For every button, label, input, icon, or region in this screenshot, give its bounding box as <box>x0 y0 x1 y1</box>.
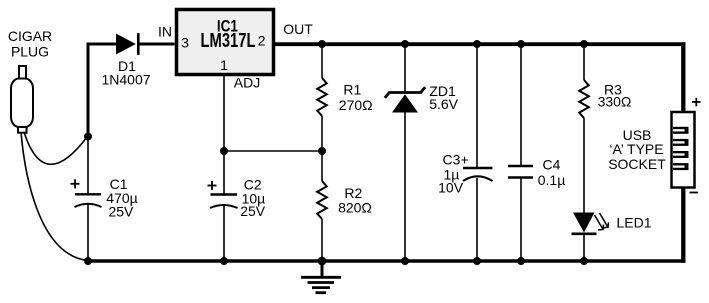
node bottom R2/ground <box>318 257 327 266</box>
svg-text:820Ω: 820Ω <box>338 200 372 216</box>
resistor R3 <box>579 80 589 118</box>
svg-text:270Ω: 270Ω <box>339 97 373 113</box>
wire R2 bottom stem <box>321 219 323 261</box>
wire plug to junction (curve A) <box>24 132 87 164</box>
wire C1 top stem <box>87 136 89 194</box>
wire C2 top stem <box>223 151 225 194</box>
C4 value label <box>538 157 566 188</box>
C1 polarity plus <box>71 179 80 188</box>
svg-text:ADJ: ADJ <box>234 75 260 91</box>
svg-text:330Ω: 330Ω <box>598 93 632 109</box>
LED1 light arrows <box>595 213 609 230</box>
svg-text:PLUG: PLUG <box>11 44 49 60</box>
svg-text:C4: C4 <box>543 157 561 173</box>
wire plug to ground bus (curve B) <box>21 132 88 261</box>
node ADJ/C2 <box>220 147 228 155</box>
node bottom C2 <box>220 257 228 265</box>
wire ZD1 bottom stem <box>404 113 406 262</box>
wire LED bottom stem <box>583 234 585 261</box>
wire diode to IC <box>138 43 174 46</box>
svg-text:SOCKET: SOCKET <box>608 156 666 172</box>
wire input corner: vertical + horizontal to diode <box>88 44 116 136</box>
zener diode ZD1 <box>385 87 425 112</box>
resistor R1 <box>317 78 327 116</box>
wire C3 top stem <box>476 44 478 168</box>
cigar plug symbol <box>11 66 33 133</box>
capacitor C3 <box>463 168 493 181</box>
R3 value label <box>598 81 632 109</box>
wire ZD1 top stem <box>404 44 406 92</box>
wire ADJ to R1/R2 junction <box>224 150 322 152</box>
svg-text:IN: IN <box>158 24 172 40</box>
ZD1 value label <box>429 83 458 112</box>
wire C4 bottom stem <box>520 178 522 262</box>
cigar plug label <box>8 28 52 60</box>
wire R3 top stem <box>583 44 585 80</box>
svg-text:C3+: C3+ <box>443 152 469 168</box>
wire C2 bottom stem <box>223 206 225 262</box>
node bottom C3 <box>473 257 481 265</box>
svg-text:R1: R1 <box>343 81 361 97</box>
wire top bus OUT <box>274 42 685 46</box>
node OUT at R3 <box>580 40 588 48</box>
svg-text:LM317L: LM317L <box>201 30 256 52</box>
wire bottom bus <box>86 259 685 263</box>
node OUT at ZD1 <box>401 40 409 48</box>
USB socket label <box>608 127 666 172</box>
node OUT at C4 <box>517 40 525 48</box>
R1 value label <box>339 81 373 113</box>
ground <box>301 261 341 293</box>
USB socket contacts <box>673 127 689 170</box>
node R1/R2 <box>318 147 326 155</box>
svg-text:10V: 10V <box>438 180 464 196</box>
node bottom C1 <box>84 257 92 265</box>
R2 value label <box>338 185 372 216</box>
resistor R2 <box>317 181 327 219</box>
USB socket minus terminal <box>690 192 699 194</box>
wire R1 top stem <box>321 44 323 78</box>
C2 value label <box>240 177 266 220</box>
wire R2 top stem <box>321 151 323 181</box>
svg-text:OUT: OUT <box>283 21 313 37</box>
capacitor C1 <box>75 194 102 207</box>
svg-text:1: 1 <box>220 57 228 73</box>
wire C1 bottom stem <box>87 205 89 262</box>
node input junction <box>84 133 92 141</box>
LED LED1 <box>572 213 597 234</box>
wire right vertical top <box>681 42 685 112</box>
diode D1 <box>116 33 138 55</box>
node OUT at R1 <box>318 40 326 48</box>
node bottom ZD1 <box>401 257 409 265</box>
C1 value label <box>106 176 137 220</box>
node bottom LED1 <box>580 257 588 265</box>
svg-text:CIGAR: CIGAR <box>8 28 52 44</box>
svg-text:3: 3 <box>181 35 189 51</box>
D1 value label <box>101 58 150 88</box>
capacitor C4 <box>508 166 533 178</box>
node bottom C4 <box>517 257 525 265</box>
svg-text:‘A’ TYPE: ‘A’ TYPE <box>609 141 663 157</box>
svg-text:25V: 25V <box>240 203 266 219</box>
wire R3 to LED <box>583 118 585 213</box>
svg-text:25V: 25V <box>108 204 134 220</box>
wire R1 bottom stem <box>321 116 323 151</box>
USB socket J1 <box>672 112 695 188</box>
svg-text:R2: R2 <box>344 185 362 201</box>
wire C3 bottom stem <box>476 178 478 261</box>
svg-text:2: 2 <box>258 33 266 49</box>
USB socket plus terminal <box>692 98 701 107</box>
wire ADJ from pin 1 <box>223 75 225 152</box>
wire C4 top stem <box>520 44 522 166</box>
IC1 text <box>201 17 256 52</box>
node OUT at C3 <box>473 40 481 48</box>
C3 value label <box>438 152 469 196</box>
svg-text:5.6V: 5.6V <box>429 96 458 112</box>
C2 polarity plus <box>208 181 217 190</box>
svg-text:LED1: LED1 <box>616 214 651 230</box>
capacitor C2 <box>210 195 238 209</box>
wire right vertical bottom <box>681 188 685 263</box>
svg-text:1N4007: 1N4007 <box>101 72 150 88</box>
op-amp/regulator IC1 box <box>177 10 274 75</box>
svg-text:0.1µ: 0.1µ <box>538 172 566 188</box>
